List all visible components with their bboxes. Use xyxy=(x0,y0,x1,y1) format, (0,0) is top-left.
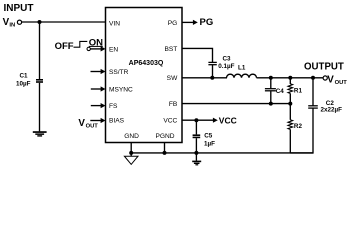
wire VCC node to C5 xyxy=(195,120,197,134)
svg-text:C3: C3 xyxy=(223,56,232,63)
svg-text:OUT: OUT xyxy=(335,80,348,86)
svg-text:SW: SW xyxy=(167,75,178,82)
svg-text:C4: C4 xyxy=(276,88,285,95)
svg-text:EN: EN xyxy=(109,46,118,53)
svg-text:OUT: OUT xyxy=(86,124,99,130)
wire FS arrow into IC xyxy=(91,105,104,107)
op-amp U1 AP64303Q IC box xyxy=(106,8,183,143)
wire BST to C3 xyxy=(182,48,213,62)
wire ground rail xyxy=(131,152,313,154)
EN terminal circle xyxy=(87,47,90,50)
svg-text:L1: L1 xyxy=(238,65,246,72)
wire PG arrow out xyxy=(182,21,196,23)
svg-text:R1: R1 xyxy=(294,87,303,94)
resistor R2 xyxy=(288,104,293,153)
svg-text:GND: GND xyxy=(124,133,139,140)
ground (C1, bar style) xyxy=(33,131,47,136)
ground (C5, bar style) xyxy=(192,161,201,166)
junction dot C2 top xyxy=(311,76,315,80)
wire PGND stub xyxy=(164,143,166,153)
svg-text:V: V xyxy=(327,74,334,85)
junction dot C4 top xyxy=(269,76,273,80)
junction dot C4 bottom xyxy=(269,102,273,106)
svg-text:VCC: VCC xyxy=(163,118,177,125)
svg-text:AP64303Q: AP64303Q xyxy=(129,60,164,67)
svg-text:V: V xyxy=(78,118,85,129)
svg-text:C5: C5 xyxy=(204,133,213,140)
junction dot VCC/C5 xyxy=(194,118,198,122)
wire SW to L1 xyxy=(182,77,227,79)
node VOUT terminal label xyxy=(327,74,347,86)
resistor R1 xyxy=(288,78,293,104)
wire MSYNC arrow into IC xyxy=(91,88,104,90)
wire VIN input to IC xyxy=(22,21,106,23)
wire EN arrow into IC xyxy=(90,48,103,50)
wire GND stub xyxy=(130,143,132,157)
svg-text:PGND: PGND xyxy=(155,133,174,140)
wire C5 to rail xyxy=(195,138,197,161)
capacitor C2 xyxy=(308,106,318,108)
wire VCC out xyxy=(182,119,216,121)
wire C3 to SW node xyxy=(212,65,214,78)
svg-text:1µF: 1µF xyxy=(204,141,215,148)
svg-text:FB: FB xyxy=(169,101,178,108)
svg-text:OUTPUT: OUTPUT xyxy=(304,62,344,73)
wire FB to divider xyxy=(182,103,290,105)
junction dot input node xyxy=(38,20,42,24)
junction dot SW/C3 xyxy=(210,76,214,80)
wire L1 to VOUT terminal xyxy=(257,77,323,79)
input terminal circle xyxy=(17,20,21,24)
svg-text:VCC: VCC xyxy=(219,116,237,126)
svg-text:OFF: OFF xyxy=(55,41,74,52)
svg-text:BIAS: BIAS xyxy=(109,118,125,125)
junction dot C5/rail xyxy=(194,151,198,155)
node VIN terminal label xyxy=(3,17,16,28)
svg-text:IN: IN xyxy=(9,22,15,28)
svg-text:0.1µF: 0.1µF xyxy=(218,63,234,70)
capacitor C1 xyxy=(36,79,43,83)
svg-text:R2: R2 xyxy=(294,123,303,130)
junction dot R1 top xyxy=(288,76,292,80)
wire C4 top lead xyxy=(270,78,272,89)
svg-text:2x22µF: 2x22µF xyxy=(321,107,343,114)
capacitor C4 xyxy=(265,89,276,91)
capacitor C5 xyxy=(193,134,201,138)
wire input node down to C1 xyxy=(39,22,41,79)
wire C2 top lead xyxy=(312,78,314,106)
EN step waveform xyxy=(74,41,88,47)
svg-text:VIN: VIN xyxy=(109,20,120,27)
svg-text:10µF: 10µF xyxy=(16,81,31,88)
svg-text:FS: FS xyxy=(109,103,118,110)
svg-text:PG: PG xyxy=(168,20,178,27)
wire SS/TR arrow into IC xyxy=(91,71,104,73)
wire C1 to ground xyxy=(39,83,41,132)
junction dot PGND/rail xyxy=(163,151,167,155)
wire C4 bottom lead xyxy=(270,91,272,103)
junction dot R1/R2 xyxy=(288,102,292,106)
wire C2 bottom lead to rail xyxy=(290,108,313,153)
ON underline xyxy=(89,45,103,47)
junction dot GND/rail xyxy=(129,151,133,155)
node VOUT at BIAS label xyxy=(78,118,98,130)
svg-text:BST: BST xyxy=(164,46,177,53)
svg-text:INPUT: INPUT xyxy=(4,3,34,14)
inductor L1 xyxy=(227,74,257,78)
svg-text:PG: PG xyxy=(200,17,214,28)
svg-text:MSYNC: MSYNC xyxy=(109,86,133,93)
svg-text:SS/TR: SS/TR xyxy=(109,69,129,76)
output terminal circle xyxy=(323,76,327,80)
svg-text:C1: C1 xyxy=(20,72,29,79)
ground (GND, open triangle) xyxy=(124,156,138,164)
capacitor C3 xyxy=(208,62,216,64)
wire BIAS arrow into IC xyxy=(90,120,103,122)
